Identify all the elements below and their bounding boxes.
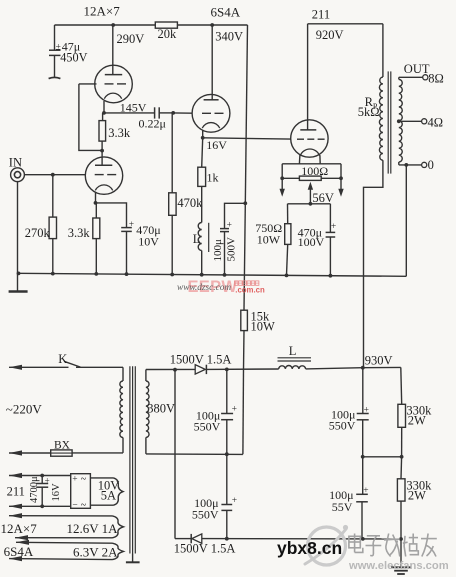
watermark cn chars (red) [235, 281, 238, 285]
wire 6.3V bottom [9, 559, 113, 560]
capacitor 100μ 55V [362, 457, 364, 494]
svg-text:211: 211 [7, 484, 25, 498]
tube 211 plate [307, 24, 309, 130]
tube V1b plate [95, 164, 112, 166]
svg-text:16V: 16V [206, 138, 227, 152]
wire D1 to choke [206, 368, 278, 370]
wire 10V top [9, 475, 71, 477]
transformer OPT primary [382, 24, 384, 77]
rectifier block [71, 474, 91, 509]
svg-text:K: K [58, 352, 67, 366]
ground (PT core) [132, 554, 134, 563]
svg-text:0: 0 [428, 158, 434, 172]
node 0-tap junction [404, 163, 408, 167]
node 56V [309, 202, 313, 206]
node 4700μ bottom [40, 504, 44, 508]
svg-text:+: + [227, 221, 232, 231]
node C1 bottom [225, 452, 229, 456]
svg-text:12.6V 1A: 12.6V 1A [67, 521, 119, 536]
watermark elecfans chars [349, 534, 363, 553]
wire top B+ rail 290V/340V [55, 24, 248, 26]
svg-text:10W: 10W [257, 233, 281, 247]
svg-text:1500V 1.5A: 1500V 1.5A [174, 542, 236, 556]
svg-text:~: ~ [81, 500, 87, 511]
svg-text:6S4A: 6S4A [4, 544, 34, 559]
svg-text:6S4A: 6S4A [211, 5, 241, 20]
node rail-470μ100V [329, 274, 333, 278]
svg-text:16V: 16V [51, 483, 62, 502]
node 930V [361, 366, 365, 370]
transformer OPT core [387, 71, 389, 173]
winding 12.6V brace [113, 516, 124, 538]
resistor 470k [171, 113, 173, 193]
wire mains bottom [9, 452, 51, 454]
resistor 3.3k (V1b cathode) [95, 203, 97, 218]
tube 6S4A grid [202, 112, 211, 114]
svg-text:+: + [232, 496, 237, 506]
transformer OPT secondary [399, 79, 402, 162]
svg-text:~220V: ~220V [6, 402, 43, 417]
svg-text:6.3V 2A: 6.3V 2A [73, 545, 118, 560]
node rail-3.3k [94, 272, 98, 276]
wire filament bar [282, 163, 341, 165]
inductor L filter choke [279, 365, 306, 368]
wire 145V node [104, 112, 154, 114]
svg-text:+: + [45, 476, 50, 486]
tube 6S4A plate [211, 25, 213, 100]
node cap stack bottom [361, 537, 365, 541]
wire 6.3V top [16, 541, 113, 544]
svg-text:.com.cn: .com.cn [235, 285, 265, 294]
resistor 15k 10W [241, 310, 248, 330]
svg-text:www.dzsc.com: www.dzsc.com [177, 283, 231, 293]
tube 211 grid [297, 138, 304, 140]
svg-text:2W: 2W [408, 413, 426, 427]
node 3.3k bottom / V1b plate [100, 149, 104, 153]
wire 0 tap [399, 164, 422, 166]
switch K blade [64, 361, 81, 367]
svg-text:100V: 100V [298, 235, 325, 249]
node 4Ω tap [397, 119, 401, 123]
wire mains top (switch side) [9, 366, 69, 368]
node IN/270k [51, 173, 55, 177]
resistor 100Ω hum pot [282, 177, 299, 179]
wire filament legs [298, 155, 301, 164]
node rail-750Ω [285, 274, 289, 278]
inductor L core [208, 223, 210, 252]
svg-text:1500V 1.5A: 1500V 1.5A [170, 353, 232, 367]
wire IN to V1b grid [24, 174, 85, 176]
wire 12.6V top [9, 515, 113, 517]
capacitor 470μ 10V [121, 227, 132, 229]
wire divider mid node [363, 456, 402, 458]
svg-text:550V: 550V [192, 508, 219, 522]
wire 340V feed line [244, 25, 248, 310]
node 6S4A plate tap [210, 23, 214, 27]
wire to 6S4A grid [173, 112, 192, 114]
tube 211 envelope [291, 120, 328, 157]
tube V1a envelope [95, 65, 133, 103]
wire cathode to bypass cap [96, 203, 127, 227]
svg-text:145V: 145V [120, 101, 147, 115]
svg-text:930V: 930V [365, 353, 393, 367]
watermark logo circle [308, 527, 346, 565]
node 6S4A cathode [201, 136, 205, 140]
arrow mains top [9, 365, 22, 370]
svg-text:ybx8.cn: ybx8.cn [277, 538, 342, 558]
arrow filament right [338, 189, 343, 197]
choke core lines [278, 357, 312, 359]
node 0.22μ/470k/grid [171, 111, 175, 115]
svg-text:4700μ: 4700μ [29, 476, 40, 503]
wire 8Ω tap [399, 76, 423, 78]
svg-text:+: + [331, 222, 336, 232]
wire 0 tap to ground rail [405, 165, 407, 276]
svg-text:380V: 380V [147, 401, 175, 415]
svg-text:OUT: OUT [404, 62, 430, 76]
svg-text:100Ω: 100Ω [301, 164, 328, 178]
node 100Ω right [339, 176, 343, 180]
capacitor 47μ 450V plates [49, 49, 61, 51]
svg-text:3.3k: 3.3k [68, 226, 91, 240]
svg-text:55V: 55V [332, 500, 353, 514]
winding 6.3V brace [113, 543, 124, 559]
wire filament left drop [281, 164, 283, 190]
svg-text:5kΩ: 5kΩ [358, 105, 380, 119]
transformer PT primary [122, 367, 124, 381]
transformer PT core [129, 366, 131, 553]
svg-text:290V: 290V [117, 32, 145, 46]
node mid-left [361, 455, 365, 459]
capacitor 100μ 500V [225, 203, 246, 228]
svg-text:BX: BX [54, 439, 71, 451]
capacitor 100μ 550V (C1) [226, 369, 228, 413]
svg-text:12A×7: 12A×7 [1, 521, 38, 536]
node C2 bottom [225, 537, 229, 541]
wire IN jack ground stem [17, 182, 19, 274]
wire HV top to D1 [146, 368, 195, 370]
node rail-L [200, 273, 204, 277]
svg-text:10W: 10W [251, 320, 276, 334]
svg-text:+: + [129, 220, 134, 230]
node tube V1a plate tap [111, 23, 115, 27]
svg-text:10V: 10V [138, 234, 159, 248]
arrow 10V bottom [9, 504, 22, 509]
arrow mains bottom [9, 450, 22, 455]
svg-text:www.elecfans.com: www.elecfans.com [348, 560, 449, 572]
terminal IN jack [11, 168, 25, 182]
wire box top right [89, 476, 91, 478]
node 100μ500V tap on B+ line [243, 201, 247, 205]
resistor 1k [202, 138, 203, 167]
resistor 20k [155, 22, 177, 28]
tube V1b grid [95, 174, 104, 176]
node rail-270k [51, 272, 55, 276]
capacitor 4700μ 16V [41, 476, 43, 484]
capacitor 47μ 450V lead [54, 25, 56, 50]
svg-text:L: L [193, 232, 201, 246]
svg-text:340V: 340V [215, 29, 243, 43]
diode D1 1500V 1.5A [195, 365, 205, 374]
tube 6S4A envelope [192, 94, 230, 132]
node 4700μ top [40, 474, 44, 478]
wire 10V bottom [9, 505, 71, 507]
node rail-IN [17, 272, 21, 276]
svg-text:12A×7: 12A×7 [84, 4, 121, 19]
ground (input) [17, 273, 19, 290]
svg-text:20k: 20k [158, 27, 178, 41]
svg-text:270k: 270k [25, 226, 51, 240]
svg-text:IN: IN [9, 155, 22, 169]
svg-text:56V: 56V [312, 191, 334, 205]
pot wiper arrow [309, 189, 311, 204]
node mid-right [400, 455, 404, 459]
diode D2 1500V 1.5A [190, 534, 192, 543]
svg-text:450V: 450V [60, 51, 87, 65]
svg-text:8Ω: 8Ω [428, 72, 444, 86]
resistor 750Ω 10W [287, 204, 289, 224]
tube V1a cathode [104, 93, 121, 99]
wire 16V to 211 grid [203, 138, 291, 139]
winding 10V 5A bubble [90, 477, 113, 479]
svg-text:+: + [72, 474, 77, 484]
tube V1b envelope [85, 157, 122, 194]
svg-text:1k: 1k [207, 171, 219, 185]
wire D2 return drop [174, 370, 176, 539]
wire choke to 330k [363, 366, 401, 368]
tube V1b cathode [95, 185, 112, 191]
svg-text:5A: 5A [101, 489, 116, 503]
svg-text:470k: 470k [177, 196, 203, 210]
svg-text:500V: 500V [226, 237, 238, 262]
capacitor 0.22μ coupling [154, 107, 156, 118]
resistor 3.3k (V1a cathode) [102, 113, 104, 121]
tube V1a grid [79, 83, 97, 85]
wire 56V bus [288, 203, 331, 205]
tube V1a plate [112, 25, 114, 75]
svg-text:100μ: 100μ [212, 239, 224, 262]
node 100Ω left [280, 176, 284, 180]
inductor L (cathode choke) [198, 223, 201, 251]
terminal 8Ω [423, 75, 428, 80]
resistor 330k 2W (lower) [400, 457, 403, 479]
capacitor 470μ 100V [329, 204, 331, 232]
terminal 0 [422, 162, 427, 167]
capacitor 100μ 550V (C2) [226, 454, 228, 504]
node rail-470k [170, 273, 174, 277]
tube 211 filament arc [300, 149, 319, 156]
svg-text:3.3k: 3.3k [108, 126, 131, 140]
svg-text:L: L [289, 344, 297, 358]
node 145V junction [102, 111, 106, 115]
svg-text:550V: 550V [329, 419, 356, 433]
svg-text:0.22μ: 0.22μ [139, 116, 166, 130]
wire V1a grid to V1b plate [79, 84, 102, 150]
wire 920V rail [308, 23, 383, 25]
svg-text:+: + [232, 405, 237, 415]
svg-text:211: 211 [312, 8, 330, 22]
wire HV bottom [146, 453, 243, 456]
arrow 10V top [9, 473, 22, 478]
node rail-100μ500V [223, 273, 227, 277]
svg-text:920V: 920V [316, 28, 344, 42]
arrow filament left [280, 189, 285, 197]
wire 12.6V bottom [15, 537, 113, 539]
svg-text:2W: 2W [408, 489, 426, 503]
node rectifier output [225, 368, 229, 372]
wire 4Ω tap [399, 120, 422, 122]
terminal 4Ω [422, 119, 427, 124]
svg-text:550V: 550V [194, 419, 221, 433]
svg-text:~: ~ [81, 474, 87, 485]
svg-text:4Ω: 4Ω [428, 116, 444, 130]
node D1 anode junction [173, 368, 177, 372]
wire bottom HV rail [202, 538, 401, 540]
capacitor 100μ 550V (C3) [362, 368, 364, 414]
svg-text:+: + [363, 486, 368, 496]
fuse BX [51, 450, 72, 456]
node rail-470μ [125, 272, 129, 276]
resistor 270k [52, 175, 54, 217]
wire ground rail [18, 273, 407, 276]
wire filament right drop [340, 164, 342, 190]
tube 6S4A cathode [202, 123, 219, 129]
svg-text:−: − [72, 500, 77, 510]
ground (supply) [400, 539, 402, 567]
svg-text:+: + [364, 406, 369, 416]
node V1b cathode [94, 201, 98, 205]
transformer HV secondary [145, 370, 147, 382]
node ground node [399, 537, 403, 541]
resistor 330k 2W (upper) [400, 367, 403, 404]
